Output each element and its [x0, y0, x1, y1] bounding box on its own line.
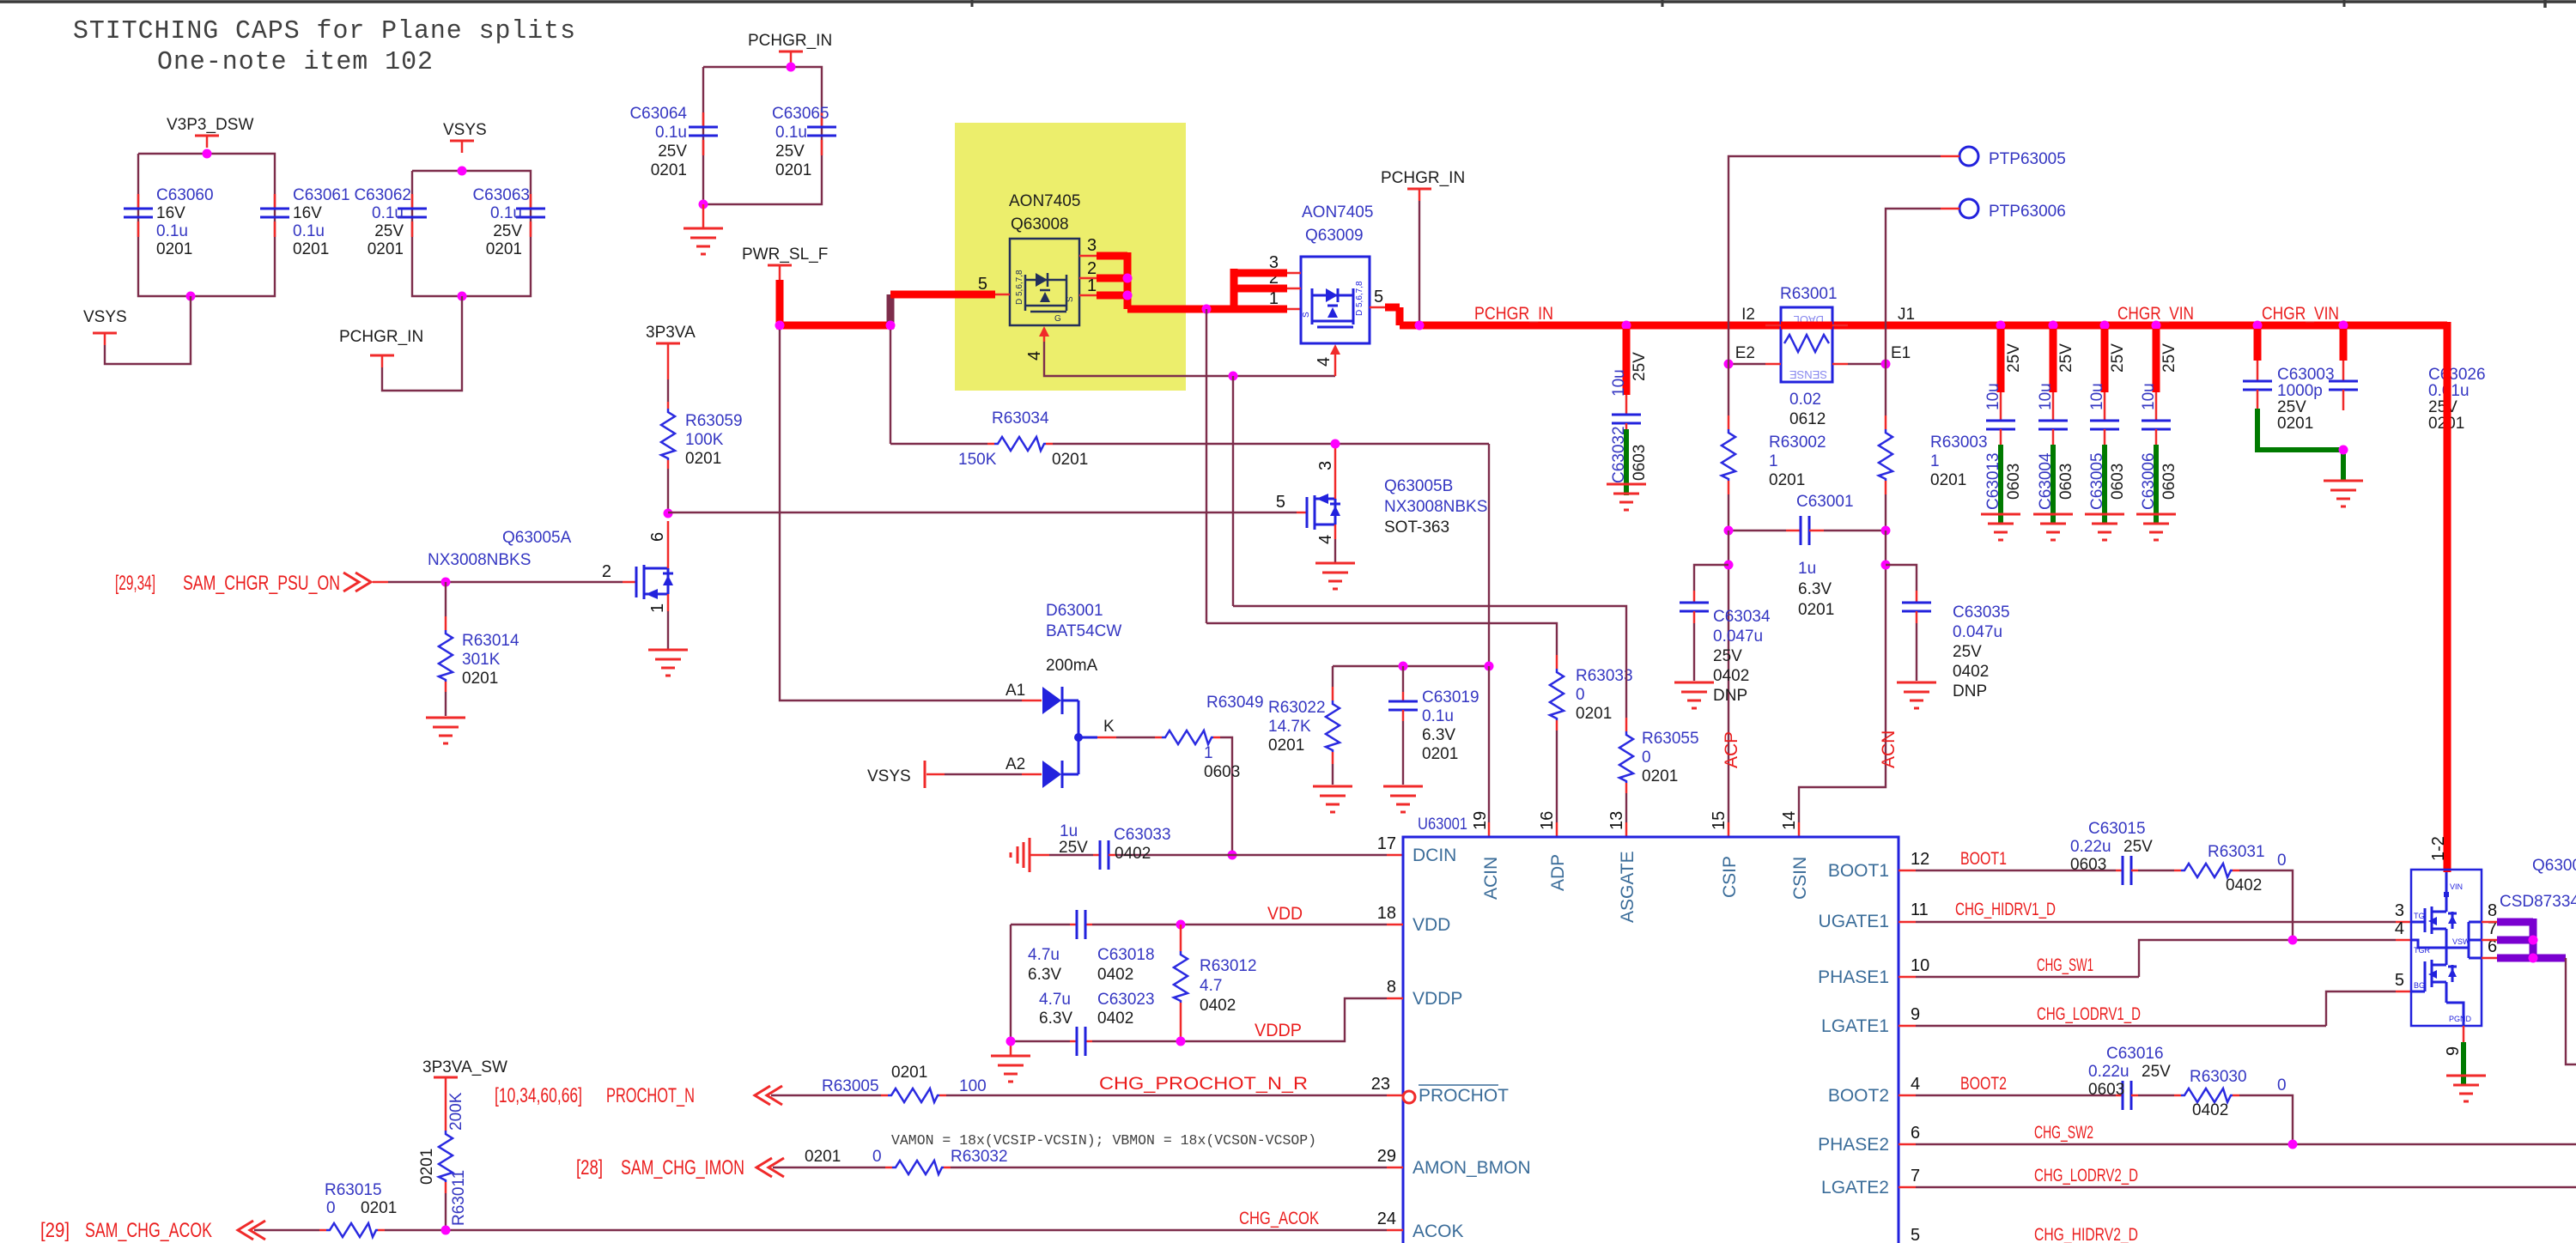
svg-text:200mA: 200mA	[1046, 657, 1098, 675]
svg-text:CHG_SW2: CHG_SW2	[2034, 1123, 2093, 1143]
svg-text:3: 3	[1087, 236, 1097, 255]
wire stitching loop 1	[138, 154, 275, 296]
power symbol PWR_SL_F	[742, 246, 828, 280]
svg-text:C63033: C63033	[1114, 826, 1171, 844]
wire VDDP ground stub	[1010, 1041, 1012, 1055]
svg-text:0201: 0201	[462, 670, 498, 688]
wire VDD cap left leg	[1010, 925, 1012, 1041]
resistor R63033	[1550, 655, 1633, 837]
svg-text:25V: 25V	[2160, 343, 2178, 373]
svg-text:BOOT1: BOOT1	[1960, 849, 2007, 869]
svg-text:VSYS: VSYS	[867, 767, 911, 785]
svg-text:CHG_PROCHOT_N_R: CHG_PROCHOT_N_R	[1099, 1074, 1308, 1094]
svg-text:0.1u: 0.1u	[293, 222, 325, 240]
svg-text:6: 6	[648, 532, 667, 542]
svg-text:C63062: C63062	[354, 186, 411, 204]
svg-text:0: 0	[2277, 1076, 2287, 1094]
net label CHG_LODRV2_D	[2034, 1166, 2138, 1185]
wire C63005 green strap	[2102, 445, 2107, 524]
svg-text:4.7u: 4.7u	[1028, 946, 1060, 964]
wire bus overlay through R63001	[1781, 322, 1832, 330]
svg-text:0603: 0603	[2160, 464, 2178, 500]
ground C63035	[1897, 682, 1936, 708]
ground C63005	[2085, 514, 2124, 540]
svg-text:LGATE2: LGATE2	[1821, 1178, 1889, 1198]
svg-text:25V: 25V	[2142, 1063, 2171, 1081]
pin 11 UGATE1	[1819, 900, 1929, 931]
svg-text:1u: 1u	[1060, 822, 1078, 840]
svg-text:0201: 0201	[1052, 451, 1088, 469]
pin 4 BOOT2	[1828, 1075, 1920, 1106]
ground C63019	[1383, 786, 1423, 812]
sheet top border	[0, 0, 2576, 8]
svg-text:CHG_ACOK: CHG_ACOK	[1239, 1209, 1319, 1228]
label ACN	[1879, 731, 1899, 768]
capacitor C63060	[124, 186, 214, 258]
capacitor C63004 10u	[2037, 329, 2075, 510]
node C63001 right junction	[1881, 526, 1891, 536]
svg-text:0.1u: 0.1u	[1422, 707, 1454, 725]
svg-text:VAMON = 18x(VCSIP-VCSIN); VBMO: VAMON = 18x(VCSIP-VCSIN); VBMON = 18x(VC…	[891, 1132, 1316, 1149]
svg-text:AON7405: AON7405	[1009, 192, 1080, 210]
svg-text:C63061: C63061	[293, 186, 350, 204]
transistor Q63009	[1269, 203, 1385, 343]
wire Q63008 pin jumpers	[1097, 252, 1127, 309]
svg-text:C63001: C63001	[1796, 493, 1854, 511]
wire loop3 to ground	[702, 204, 705, 227]
pin 16 ADP	[1538, 811, 1568, 891]
svg-text:25V: 25V	[1059, 839, 1088, 857]
svg-text:13: 13	[1607, 811, 1626, 830]
net label BOOT2	[1960, 1074, 2007, 1094]
capacitor C63034	[1680, 565, 1771, 705]
svg-text:PROCHOT_N: PROCHOT_N	[606, 1084, 695, 1107]
svg-text:1: 1	[1087, 276, 1097, 295]
pin 14 CSIN	[1780, 811, 1810, 900]
ground signal C63033	[1011, 838, 1030, 872]
svg-text:R63012: R63012	[1200, 957, 1257, 975]
svg-text:C63018: C63018	[1097, 946, 1155, 964]
svg-text:ACIN: ACIN	[1481, 857, 1501, 900]
net label CHG_LODRV1_D	[2037, 1004, 2141, 1024]
svg-text:8: 8	[2488, 901, 2497, 920]
svg-text:1000p: 1000p	[2277, 382, 2323, 400]
svg-text:5: 5	[1911, 1226, 1920, 1243]
wire stitching loop 2	[412, 171, 531, 296]
wire CHG_LODRV2_D row	[1899, 1186, 2576, 1189]
svg-text:25V: 25V	[2428, 398, 2458, 416]
wire ACIN to IC pin19	[1488, 666, 1490, 837]
svg-text:0201: 0201	[1642, 767, 1678, 785]
wire PCHGR_IN thick bus	[1400, 322, 2447, 330]
capacitor C63026	[2329, 329, 2486, 433]
svg-text:15: 15	[1710, 811, 1728, 830]
wire TGR row	[2139, 940, 2411, 977]
wire E2 stub	[1728, 363, 1765, 365]
pin 5 CHG_HIDRV2	[1911, 1226, 1920, 1243]
resistor R63031	[2174, 843, 2293, 940]
svg-text:16V: 16V	[156, 204, 185, 222]
transistor Q63006 CSD87334Q power block	[2395, 836, 2576, 1026]
wire down to R63034 row	[890, 330, 891, 444]
svg-text:0402: 0402	[1097, 966, 1133, 984]
capacitor C63061	[260, 186, 350, 258]
svg-text:J1: J1	[1898, 306, 1915, 324]
svg-text:0201: 0201	[651, 161, 687, 179]
node C63003 tap junction	[2253, 321, 2263, 330]
wire green strap C63003-C63026	[2257, 409, 2343, 481]
svg-text:100K: 100K	[685, 431, 724, 449]
svg-text:Q63009: Q63009	[1305, 227, 1364, 245]
net label CHG_SW2	[2034, 1123, 2093, 1143]
capacitor C63013 10u	[1984, 329, 2023, 510]
svg-text:25V: 25V	[2123, 838, 2153, 856]
capacitor C63033	[1030, 822, 1232, 870]
sheet port SAM_CHG_IMON	[576, 1156, 885, 1179]
resistor R63032	[805, 1148, 1403, 1174]
svg-text:0201: 0201	[685, 450, 721, 468]
ground C63013	[1981, 514, 2020, 540]
svg-text:0: 0	[326, 1199, 336, 1217]
wire PGND green strap	[2444, 1026, 2464, 1084]
svg-text:25V: 25V	[1953, 643, 1982, 661]
svg-text:C63034: C63034	[1713, 608, 1771, 626]
label ACP	[1722, 731, 1741, 768]
svg-text:UGATE1: UGATE1	[1819, 912, 1889, 931]
svg-text:0201: 0201	[1930, 471, 1966, 489]
node green strap junction	[2339, 446, 2348, 455]
title line 2	[157, 47, 434, 77]
svg-text:C63035: C63035	[1953, 603, 2010, 621]
svg-text:PTP63005: PTP63005	[1989, 150, 2066, 168]
svg-text:[29]: [29]	[40, 1219, 70, 1242]
svg-text:SAM_CHG_IMON: SAM_CHG_IMON	[621, 1156, 744, 1179]
capacitor C63063	[472, 186, 545, 258]
svg-text:NX3008NBKS: NX3008NBKS	[1384, 498, 1487, 516]
net label PCHGR_IN	[1474, 304, 1553, 324]
resistor R63059	[661, 355, 743, 513]
svg-text:0201: 0201	[805, 1148, 841, 1166]
svg-text:Q6300: Q6300	[2532, 857, 2576, 875]
svg-text:0201: 0201	[1422, 745, 1458, 763]
svg-text:0.22u: 0.22u	[2088, 1063, 2129, 1081]
svg-text:0402: 0402	[1097, 1010, 1133, 1028]
svg-text:G: G	[1054, 314, 1061, 324]
svg-text:A1: A1	[1005, 682, 1025, 700]
svg-text:[29,34]: [29,34]	[115, 572, 155, 595]
ground Q63006	[2446, 1076, 2486, 1101]
svg-text:C63003: C63003	[2277, 366, 2335, 384]
node C63001 left junction	[1724, 526, 1734, 536]
svg-text:R63015: R63015	[325, 1181, 382, 1199]
node E2 junction	[1724, 360, 1734, 369]
svg-text:PGND: PGND	[2449, 1015, 2472, 1023]
node DCIN junction	[1228, 851, 1237, 860]
node V3P3_DSW junction	[203, 149, 212, 159]
svg-text:R63055: R63055	[1642, 730, 1699, 748]
svg-text:CSIP: CSIP	[1720, 856, 1740, 898]
svg-text:CSD87334Q: CSD87334Q	[2500, 893, 2576, 911]
svg-text:0: 0	[1642, 749, 1651, 767]
svg-text:SAM_CHGR_PSU_ON: SAM_CHGR_PSU_ON	[183, 572, 340, 595]
svg-text:BOOT2: BOOT2	[1828, 1086, 1889, 1106]
svg-text:5: 5	[1374, 288, 1383, 306]
svg-text:29: 29	[1377, 1147, 1396, 1166]
wire PWR_SL_F to D63001 A1	[780, 330, 1042, 700]
wire gate row to Q63005B	[668, 512, 1297, 513]
svg-text:0402: 0402	[1200, 997, 1236, 1015]
ground VDDP	[991, 1056, 1030, 1082]
svg-text:VSYS: VSYS	[443, 121, 487, 139]
wire VSW exit	[2566, 958, 2576, 1064]
svg-text:25V: 25V	[1631, 352, 1649, 381]
node C63013 tap junction	[1996, 321, 2006, 330]
svg-text:1u: 1u	[1798, 560, 1816, 578]
capacitor C63023	[1039, 991, 1155, 1056]
ground C63004	[2033, 514, 2073, 540]
capacitor C63035	[1886, 565, 2010, 700]
svg-text:10u: 10u	[2037, 383, 2055, 410]
resistor R63003	[1879, 364, 1988, 531]
svg-text:VDD: VDD	[1413, 915, 1450, 935]
wire E1 stub	[1848, 363, 1886, 365]
svg-text:0.1u: 0.1u	[156, 222, 188, 240]
ground C63026	[2324, 481, 2363, 506]
net label CHG_SW1	[2037, 955, 2093, 975]
svg-text:D 5,6,7,8: D 5,6,7,8	[1355, 281, 1364, 316]
resistor R63014	[439, 582, 519, 716]
capacitor C63005 10u	[2088, 329, 2127, 510]
svg-text:BOOT1: BOOT1	[1828, 861, 1889, 881]
svg-text:16V: 16V	[293, 204, 322, 222]
svg-text:CHGR_VIN: CHGR_VIN	[2262, 304, 2339, 324]
svg-text:0402: 0402	[2226, 876, 2262, 894]
svg-text:24: 24	[1377, 1210, 1396, 1228]
power symbol 3P3VA_SW	[422, 1058, 507, 1089]
svg-text:ACP: ACP	[1722, 731, 1741, 768]
svg-text:Q63005A: Q63005A	[502, 529, 572, 547]
wire ACIN node row	[1333, 665, 1489, 667]
power symbol VSYS left	[83, 308, 127, 345]
svg-text:SAM_CHG_ACOK: SAM_CHG_ACOK	[85, 1219, 212, 1242]
wire CHGR_VIN down to FET block	[2444, 322, 2451, 872]
svg-text:E2: E2	[1735, 344, 1755, 362]
node ACOK junction	[441, 1226, 451, 1235]
svg-text:0402: 0402	[2192, 1101, 2228, 1119]
node loop1 bottom junction	[186, 292, 196, 301]
svg-text:Q63008: Q63008	[1011, 215, 1069, 233]
svg-text:R63001: R63001	[1780, 285, 1838, 303]
node C63006 tap junction	[2152, 321, 2161, 330]
node gate node junction	[664, 509, 673, 518]
svg-text:16: 16	[1538, 811, 1557, 830]
wire VDD row	[1011, 924, 1403, 925]
svg-text:R63032: R63032	[951, 1148, 1008, 1166]
svg-text:TGR: TGR	[2414, 946, 2430, 955]
node TGR junction	[2288, 936, 2298, 945]
svg-text:K: K	[1103, 718, 1115, 736]
capacitor C63019	[1388, 666, 1479, 785]
IC U63001 charger controller	[1403, 816, 1899, 1243]
svg-text:TG: TG	[2414, 912, 2425, 920]
node C63034 junction	[1724, 561, 1734, 570]
wire ACIN node vertical	[1488, 444, 1490, 666]
svg-text:0201: 0201	[775, 161, 811, 179]
power symbol PCHGR_IN mid	[1381, 169, 1465, 201]
svg-text:6.3V: 6.3V	[1039, 1010, 1072, 1028]
wire CHG_HIDRV1_D row	[1899, 921, 2411, 924]
svg-text:C63065: C63065	[772, 105, 829, 123]
svg-text:R63022: R63022	[1268, 699, 1326, 717]
sheet port PROCHOT_N	[495, 1084, 881, 1107]
svg-text:STITCHING CAPS for Plane split: STITCHING CAPS for Plane splits	[73, 16, 576, 46]
svg-text:23: 23	[1371, 1075, 1390, 1094]
node PWR_SL_F junction	[775, 321, 785, 330]
svg-text:PCHGR_IN: PCHGR_IN	[339, 328, 423, 346]
svg-text:VDDP: VDDP	[1255, 1021, 1302, 1040]
pin 7 LGATE2	[1821, 1167, 1920, 1198]
capacitor C63001	[1728, 493, 1886, 619]
wire Q63009 pin jumpers	[1234, 269, 1287, 309]
resistor R63034	[890, 409, 1489, 469]
svg-text:R63031: R63031	[2208, 843, 2265, 861]
svg-text:18: 18	[1377, 904, 1396, 923]
resistor R63011	[418, 1089, 468, 1230]
svg-text:1: 1	[648, 603, 667, 613]
svg-text:C63026: C63026	[2428, 366, 2486, 384]
svg-text:0201: 0201	[418, 1149, 436, 1185]
svg-text:0: 0	[2277, 852, 2287, 870]
node VSYS junction	[458, 167, 467, 176]
svg-text:VDD: VDD	[1267, 904, 1303, 924]
svg-text:0.047u: 0.047u	[1713, 628, 1763, 646]
svg-text:R63030: R63030	[2190, 1068, 2247, 1086]
svg-text:R63003: R63003	[1930, 434, 1988, 452]
svg-text:R63034: R63034	[992, 409, 1049, 427]
svg-text:0201: 0201	[1769, 471, 1805, 489]
svg-text:9: 9	[1911, 1005, 1920, 1024]
wire ASGATE vertical	[1232, 376, 1234, 606]
svg-text:0603: 0603	[2109, 464, 2127, 500]
svg-text:BOOT2: BOOT2	[1960, 1074, 2007, 1094]
svg-text:25V: 25V	[658, 142, 687, 161]
svg-text:0.047u: 0.047u	[1953, 623, 2002, 641]
svg-text:0603: 0603	[2070, 856, 2106, 874]
capacitor C63015	[2070, 820, 2174, 885]
svg-text:25V: 25V	[2005, 343, 2023, 373]
capacitor C63062	[354, 186, 427, 258]
svg-text:S: S	[1066, 296, 1075, 302]
wire C63013 green strap	[1998, 445, 2003, 524]
svg-text:PTP63006: PTP63006	[1989, 203, 2066, 221]
transistor Q63005B	[1276, 447, 1488, 562]
pin 17 DCIN	[1377, 834, 1457, 865]
capacitor C63003	[2243, 329, 2335, 433]
wire Q63009 pin4 gate	[1315, 344, 1340, 376]
svg-text:[10,34,60,66]: [10,34,60,66]	[495, 1084, 582, 1107]
node gate row junction	[1229, 372, 1238, 381]
svg-text:0201: 0201	[361, 1199, 397, 1217]
svg-text:CSIN: CSIN	[1790, 857, 1810, 900]
svg-text:2: 2	[1087, 259, 1097, 278]
svg-text:A2: A2	[1005, 755, 1025, 773]
node loop3 bottom junction	[699, 200, 708, 209]
resistor R63049	[1097, 694, 1264, 855]
svg-text:0.1u: 0.1u	[655, 124, 687, 142]
svg-text:4.7: 4.7	[1200, 977, 1222, 995]
node C63026 tap junction	[2339, 321, 2348, 330]
svg-text:10u: 10u	[2140, 383, 2158, 410]
svg-text:0603: 0603	[1204, 763, 1240, 781]
svg-text:0201: 0201	[156, 240, 192, 258]
svg-text:0603: 0603	[2057, 464, 2075, 500]
svg-text:17: 17	[1377, 834, 1396, 853]
svg-text:5: 5	[1276, 493, 1285, 512]
svg-text:R63005: R63005	[822, 1077, 879, 1095]
node C63005 tap junction	[2100, 321, 2110, 330]
node Q63008 jumper junctions	[1123, 274, 1133, 300]
node CHG_SW2 junction	[2288, 1140, 2298, 1149]
capacitor C63018	[1028, 910, 1155, 984]
svg-text:ACN: ACN	[1879, 731, 1899, 768]
wire ADP sense vertical	[1206, 309, 1207, 623]
svg-text:0.1u: 0.1u	[372, 204, 404, 222]
capacitor C63032 10u	[1610, 329, 1649, 483]
svg-text:25V: 25V	[2277, 398, 2306, 416]
node loop2 bottom junction	[458, 292, 467, 301]
svg-text:0: 0	[1576, 686, 1585, 704]
svg-text:4.7u: 4.7u	[1039, 991, 1071, 1009]
svg-text:PCHGR_IN: PCHGR_IN	[1474, 304, 1553, 324]
svg-text:CHG_LODRV2_D: CHG_LODRV2_D	[2034, 1166, 2138, 1185]
net label CHGR_VIN 2	[2262, 304, 2339, 324]
node R63014 junction	[441, 578, 451, 587]
svg-text:0: 0	[872, 1148, 882, 1166]
svg-text:6.3V: 6.3V	[1028, 966, 1061, 984]
capacitor C63016	[2088, 1045, 2174, 1110]
testpoint PTP63005	[1728, 147, 2066, 364]
wire Q63009 pin5 out	[1385, 307, 1400, 325]
svg-text:0.02: 0.02	[1789, 391, 1821, 409]
wire stitching loop 3	[703, 67, 822, 204]
svg-text:SOT-363: SOT-363	[1384, 518, 1449, 537]
svg-text:PHASE1: PHASE1	[1818, 967, 1889, 987]
svg-text:S: S	[1302, 312, 1311, 318]
resistor R63002	[1722, 364, 1826, 531]
diode D63001 dual BAT54CW	[1005, 602, 1121, 788]
svg-text:4: 4	[1911, 1075, 1920, 1094]
svg-text:0603: 0603	[2088, 1081, 2124, 1099]
svg-text:4: 4	[1025, 351, 1044, 361]
svg-text:DNP: DNP	[1713, 687, 1747, 705]
svg-text:1-2: 1-2	[2429, 836, 2448, 861]
power symbol VSYS top	[443, 121, 487, 153]
node C63004 tap junction	[2049, 321, 2058, 330]
wire C63032 green strap	[1624, 429, 1629, 495]
wire loop2 to PCHGR_IN	[382, 296, 462, 391]
capacitor C63064	[629, 105, 718, 179]
svg-text:0201: 0201	[1576, 705, 1612, 723]
svg-text:R63033: R63033	[1576, 667, 1633, 685]
svg-text:PROCHOT: PROCHOT	[1419, 1086, 1509, 1106]
svg-text:C63015: C63015	[2088, 820, 2146, 838]
capacitor C63065	[772, 105, 836, 179]
svg-text:19: 19	[1471, 811, 1490, 830]
pin 8 VDDP	[1387, 978, 1462, 1009]
svg-text:0201: 0201	[891, 1064, 927, 1082]
svg-text:R63014: R63014	[462, 632, 519, 650]
svg-text:25V: 25V	[775, 142, 805, 161]
